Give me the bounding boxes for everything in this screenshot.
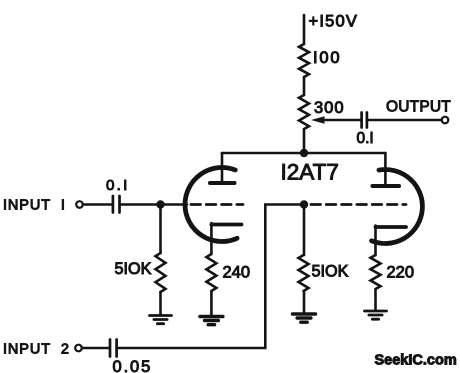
resistor 510K (grid leak 2) (299, 255, 309, 291)
tube V1a grid (dashed) (191, 203, 243, 206)
wire: +150V supply lead (top) (303, 15, 306, 44)
svg-text:+I50V: +I50V (309, 13, 359, 31)
svg-text:I2AT7: I2AT7 (281, 160, 339, 185)
svg-text:0.05: 0.05 (113, 358, 153, 373)
capacitor 0.05 (input 2 coupling) (110, 340, 117, 357)
svg-text:SeekIC.com: SeekIC.com (375, 353, 457, 369)
svg-text:0.I: 0.I (106, 177, 130, 194)
wire: 510K-2 to ground (303, 291, 306, 314)
terminal: INPUT 1 (76, 201, 83, 208)
svg-text:INPUT I: INPUT I (3, 198, 66, 214)
tube V1b envelope (right triode of 12AT7) (372, 170, 423, 244)
ground (cathode 2) (365, 311, 387, 319)
tube V1a cathode (211, 223, 241, 254)
wire: 220 to ground (374, 289, 377, 310)
output tap arrow (311, 116, 361, 124)
tube V1b cathode (376, 226, 407, 256)
wire: between 100 and 300 (303, 77, 306, 95)
resistor 300 (299, 95, 309, 129)
svg-text:220: 220 (387, 264, 415, 282)
resistor 220 (cathode bias 2) (371, 255, 381, 289)
terminal: OUTPUT (442, 117, 449, 124)
capacitor 0.1 (output coupling) (362, 113, 367, 128)
wire: grid node 1 down (159, 205, 162, 254)
ground (grid leak 2) (293, 314, 316, 322)
junction: grid node 2 (300, 200, 308, 208)
wire: plate bus (222, 152, 385, 155)
svg-text:0.I: 0.I (357, 130, 374, 147)
svg-text:INPUT 2: INPUT 2 (3, 342, 70, 358)
svg-text:OUTPUT: OUTPUT (386, 99, 451, 116)
resistor 100 (plate load) (299, 44, 309, 77)
terminal: INPUT 2 (75, 345, 82, 352)
wire: grid node 2 down (303, 205, 306, 256)
wire: 300 to plate bus (303, 129, 306, 153)
capacitor 0.1 (input 1 coupling) (113, 196, 120, 213)
wire: input 1 to coupling cap (83, 203, 112, 206)
tube V1a envelope (left triode of 12AT7) (185, 168, 237, 242)
wire: input 2 to coupling cap (82, 347, 109, 350)
junction: plate bus node (300, 149, 308, 157)
svg-text:300: 300 (314, 99, 345, 117)
svg-text:I00: I00 (313, 49, 341, 67)
svg-text:5IOK: 5IOK (115, 260, 152, 278)
wire: 240 to ground (210, 291, 213, 316)
resistor 240 (cathode bias 1) (206, 254, 216, 291)
wire: cap to grid node 1 (120, 203, 188, 206)
svg-text:240: 240 (223, 264, 251, 282)
resistor 510K (grid leak 1) (156, 253, 166, 292)
svg-text:5IOK: 5IOK (312, 263, 349, 281)
wire: output lead (367, 119, 442, 122)
junction: grid node 1 (156, 200, 164, 208)
tube V1a plate (210, 153, 235, 183)
ground (cathode 1) (200, 317, 223, 325)
ground (grid leak 1) (150, 316, 172, 324)
wire: input 2 run to grid node 2 (117, 205, 304, 349)
tube V1b plate (373, 153, 400, 186)
tube V1b grid (dashed) (311, 203, 406, 206)
wire: 510K to ground (159, 292, 162, 315)
